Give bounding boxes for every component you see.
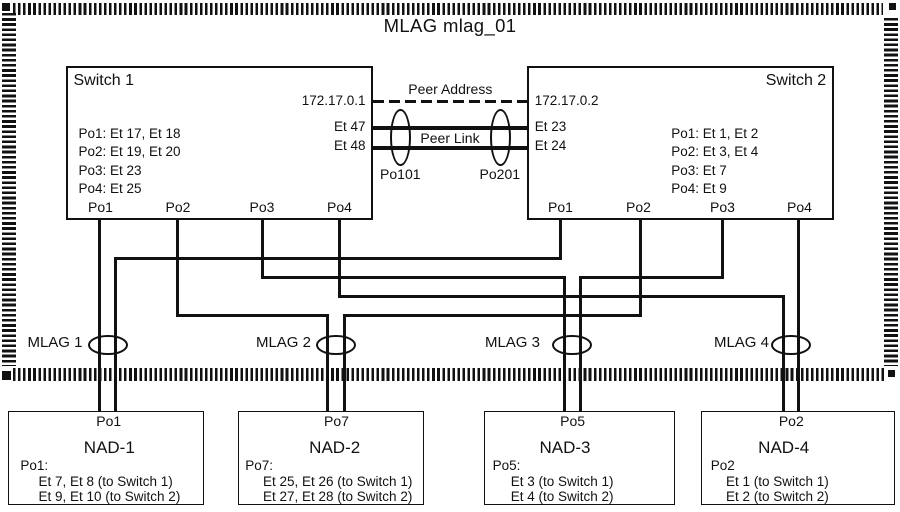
peer link wire Et47-Et23 [373, 126, 527, 130]
wire NAD-3 right vertical [579, 276, 582, 412]
label S1 Po1 [88, 200, 113, 215]
MLAG 3 ellipse [552, 335, 592, 356]
NAD-3 detail line 1 [511, 475, 614, 489]
label Po101 [380, 167, 420, 182]
NAD-3 box [484, 411, 676, 505]
label Et 24 [535, 139, 567, 153]
wire S1-Po2 vertical drop [176, 220, 179, 317]
NAD-1 box [8, 411, 204, 505]
wire S2-Po3 vertical drop [721, 220, 724, 279]
label MLAG 3 [485, 335, 540, 351]
wire S2-Po2 horizontal run [343, 314, 642, 317]
label NAD-1 Po1 top [96, 414, 121, 429]
label NAD-1 name [84, 439, 135, 457]
wire S2-Po3 horizontal run [579, 276, 725, 279]
MLAG 2 ellipse [316, 335, 356, 356]
MLAG domain hatched border: right band [884, 18, 898, 366]
label S1 Po4 [327, 200, 352, 215]
NAD-3 detail Po5: [493, 459, 521, 473]
wire S2-Po2 vertical drop [639, 220, 642, 317]
label NAD-2 name [309, 439, 360, 457]
wire S1-Po2 horizontal run [176, 314, 330, 317]
port-channel ellipse Po201 [490, 109, 511, 166]
port-channel ellipse Po101 [390, 109, 411, 166]
NAD-2 detail Po7: [245, 459, 273, 473]
wire NAD-2 left vertical [326, 314, 329, 412]
wire S1-Po3 vertical drop [261, 220, 264, 279]
MLAG 1 ellipse [88, 335, 128, 356]
MLAG domain hatched border: left band [2, 13, 16, 366]
title MLAG mlag_01 [384, 16, 517, 36]
NAD-4 box [701, 411, 896, 505]
label Et 23 [535, 120, 567, 134]
label Po201 [480, 167, 520, 182]
label 172.17.0.1 [302, 94, 366, 108]
border corner square bottom-right [888, 370, 895, 377]
NAD-3 detail line 2 [511, 490, 614, 504]
NAD-1 detail line 1 [39, 475, 173, 489]
border corner square top-left [2, 3, 10, 11]
label Peer Address [408, 82, 492, 97]
wire S2-Po1 vertical drop [559, 220, 562, 260]
label MLAG 1 [27, 335, 82, 351]
wire S2-Po4 to NAD-4 right [797, 220, 800, 411]
label MLAG 2 [256, 335, 311, 351]
switch 1 port list [79, 125, 181, 198]
label S2 Po4 [787, 200, 812, 215]
wire S1-Po4 vertical drop [338, 220, 341, 298]
wire NAD-4 left vertical [782, 295, 785, 412]
label S1 Po3 [250, 200, 275, 215]
label Peer Link [420, 131, 479, 146]
label S2 Po3 [710, 200, 735, 215]
wire S1-Po1 to NAD-1 left [98, 220, 101, 411]
label MLAG 4 [714, 335, 769, 351]
switch 2 box [527, 66, 835, 220]
label NAD-2 Po7 top [324, 414, 349, 429]
wire NAD-3 left vertical [563, 276, 566, 412]
wire S1-Po4 horizontal run [338, 295, 786, 298]
NAD-2 box [238, 411, 424, 505]
label 172.17.0.2 [535, 94, 599, 108]
label NAD-4 Po2 top [779, 414, 804, 429]
label NAD-3 Po5 top [560, 414, 585, 429]
border corner square top-right [889, 3, 896, 10]
MLAG domain hatched border: bottom band [13, 368, 886, 381]
NAD-4 detail Po2 [711, 459, 735, 473]
label S1 Po2 [166, 200, 191, 215]
label Et 48 [334, 139, 366, 153]
peer address dashed line [373, 100, 527, 103]
MLAG 4 ellipse [771, 335, 811, 356]
label Switch 1 [74, 72, 134, 89]
NAD-2 detail line 1 [263, 475, 412, 489]
wire S1-Po3 horizontal run [261, 276, 566, 279]
NAD-4 detail line 1 [726, 475, 829, 489]
wire NAD-1 right vertical [114, 257, 117, 412]
NAD-1 detail line 2 [39, 490, 181, 504]
wire NAD-2 right vertical [343, 314, 346, 412]
switch 2 port list [671, 125, 758, 198]
label NAD-4 name [758, 439, 809, 457]
switch 1 box [66, 66, 373, 220]
MLAG domain hatched border: top band [13, 3, 883, 16]
border corner square bottom-left [2, 371, 11, 380]
peer link wire Et48-Et24 [373, 146, 527, 150]
wire S2-Po1 horizontal run to NAD-1 [114, 257, 563, 260]
NAD-4 detail line 2 [726, 490, 829, 504]
label NAD-3 name [539, 439, 590, 457]
NAD-1 detail Po1: [20, 459, 48, 473]
label Switch 2 [766, 72, 826, 89]
NAD-2 detail line 2 [263, 490, 412, 504]
label S2 Po2 [626, 200, 651, 215]
label S2 Po1 [548, 200, 573, 215]
label Et 47 [334, 120, 366, 134]
